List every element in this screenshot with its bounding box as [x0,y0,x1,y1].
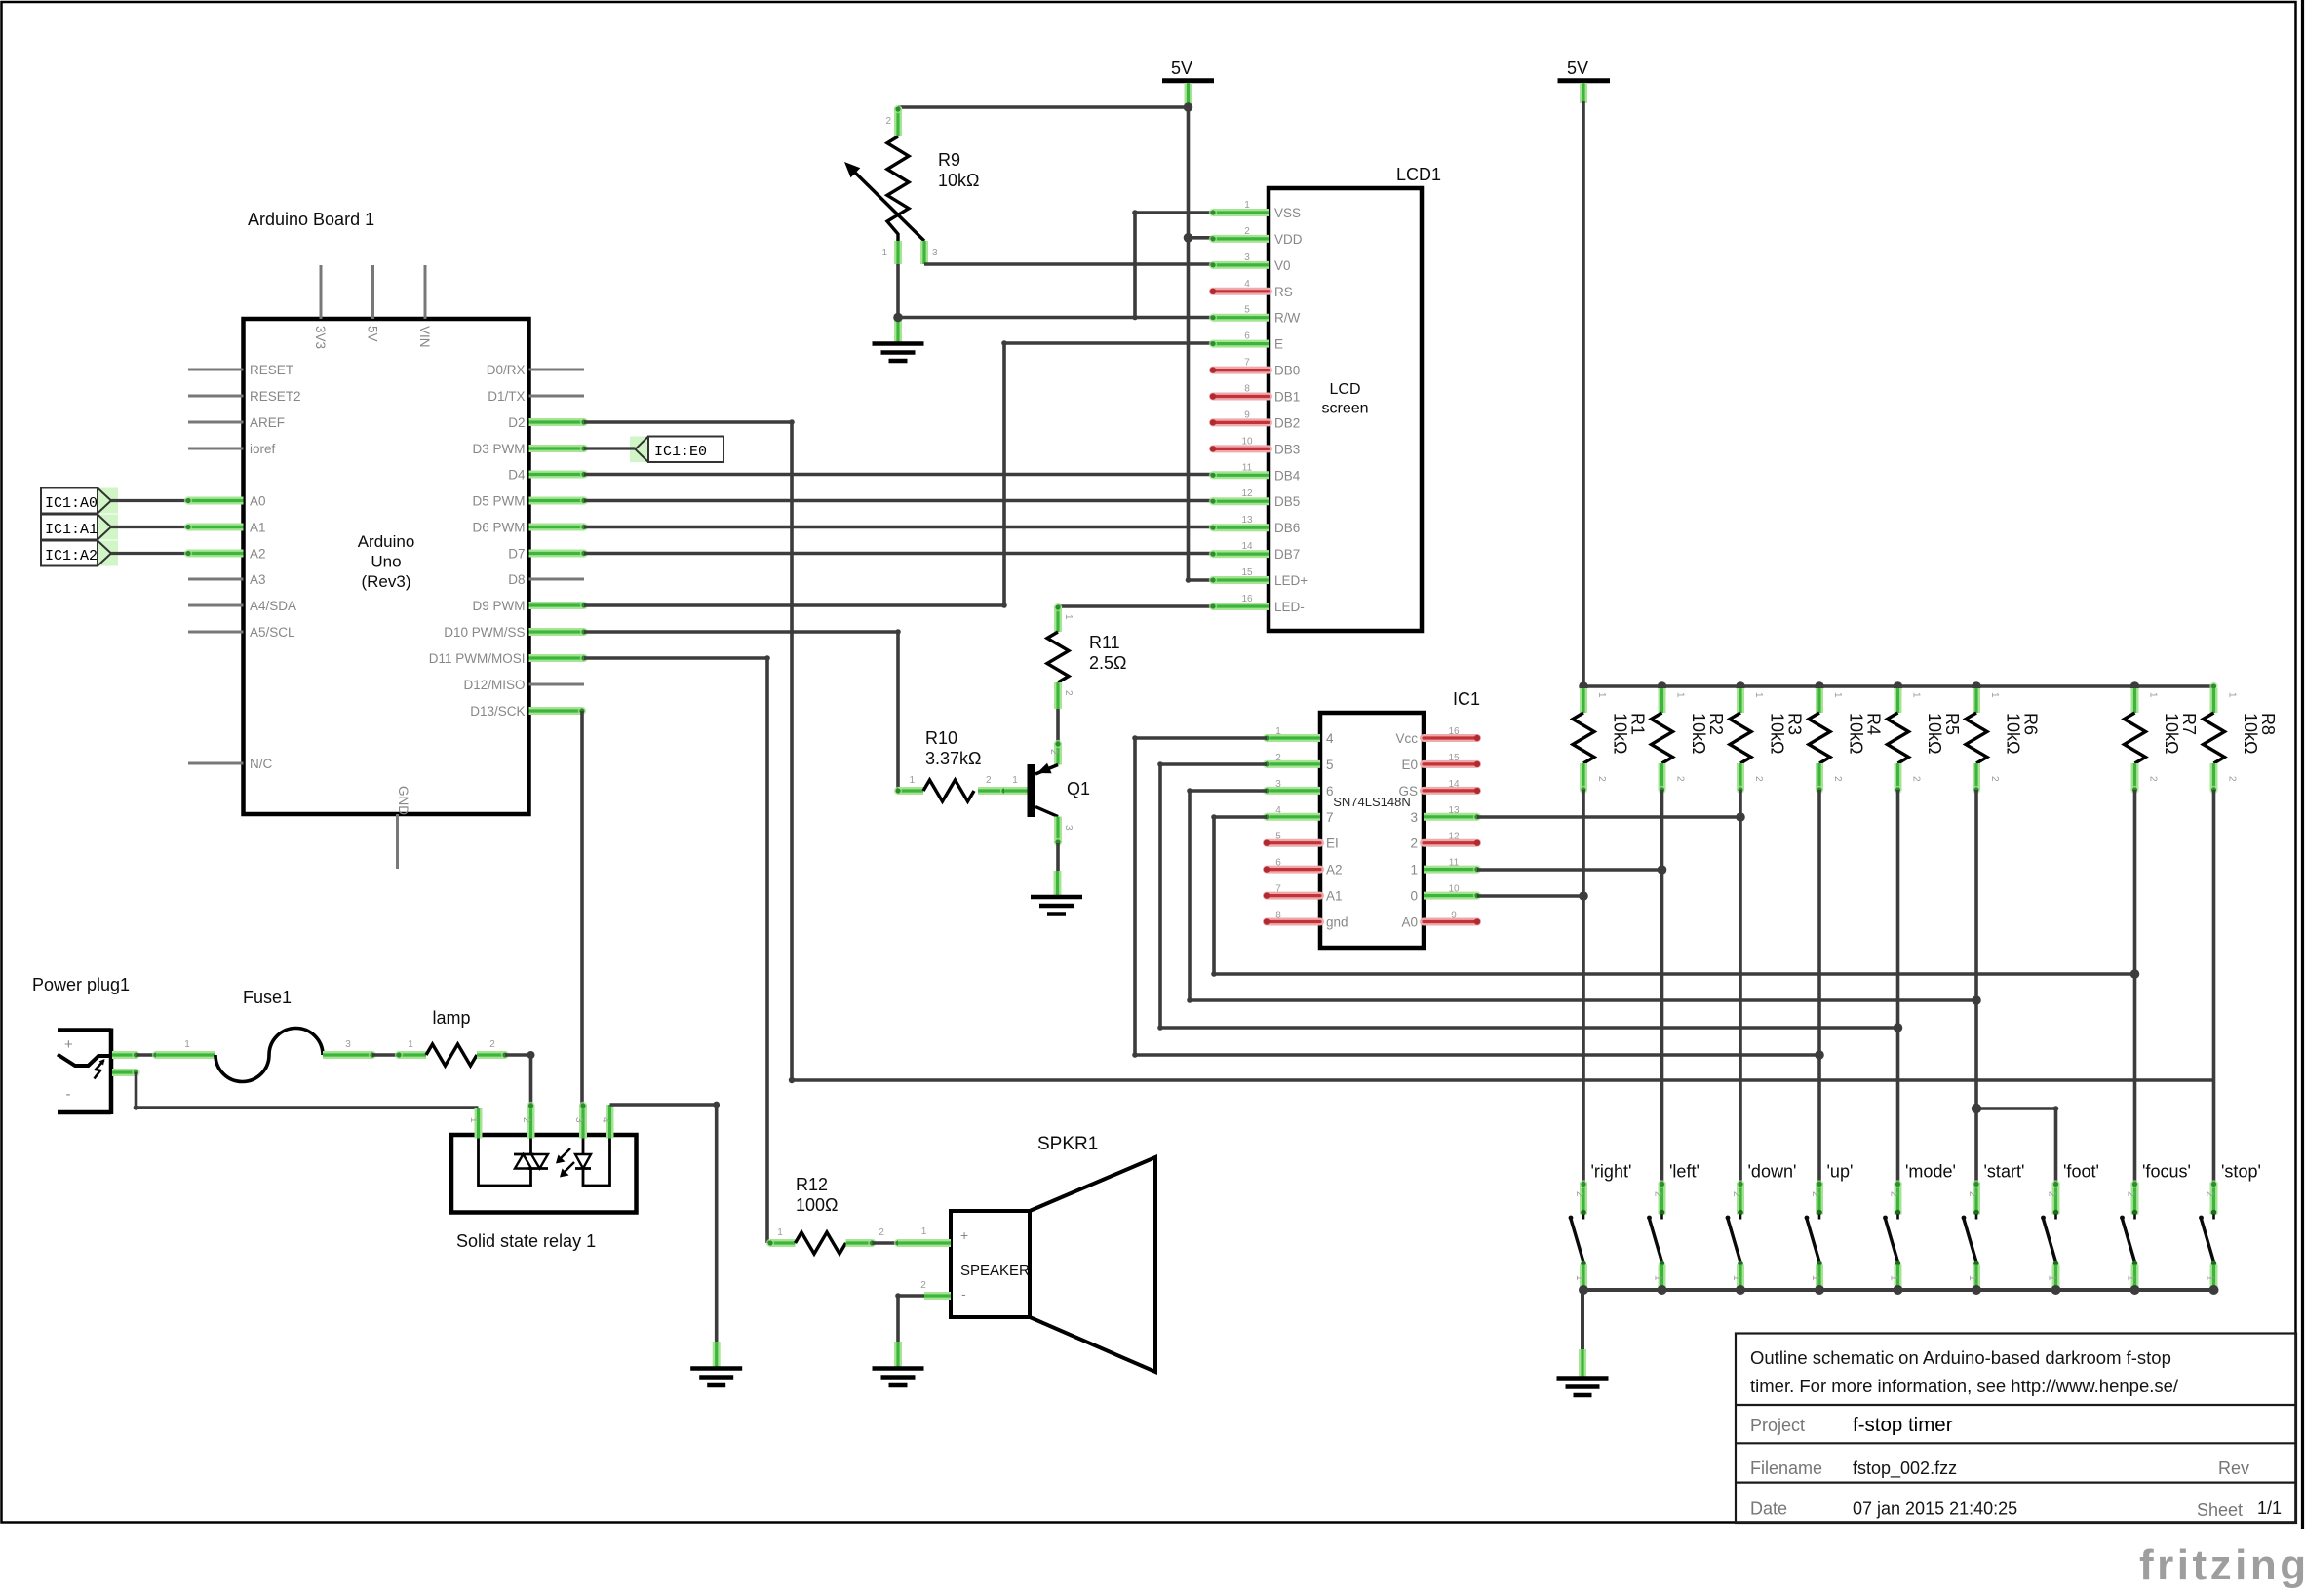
svg-text:IC1:A0: IC1:A0 [45,495,98,512]
svg-text:AREF: AREF [250,415,285,430]
svg-text:3: 3 [1275,779,1281,790]
svg-text:1: 1 [1911,692,1922,698]
svg-text:D1/TX: D1/TX [488,389,525,404]
svg-text:7: 7 [1275,884,1281,895]
LCD1 pin 4 RS [1210,279,1293,299]
IC1 pin 4 7 [1263,805,1334,825]
wire plug- to relay pin1 [134,1072,479,1110]
svg-text:14: 14 [1448,779,1460,790]
svg-text:f-stop timer: f-stop timer [1853,1414,1953,1436]
svg-text:LED+: LED+ [1274,573,1308,588]
wire IC1 pin2/input5 to 'mode' [1157,761,1902,1032]
svg-text:1: 1 [1653,1275,1663,1281]
relay pin 2 [521,1102,535,1139]
svg-text:1: 1 [1244,200,1250,211]
net flag IC1:A0 [41,488,118,514]
fritzing watermark [2139,1541,2305,1589]
svg-text:10kΩ: 10kΩ [1768,713,1787,754]
relay pin 3 [573,1102,587,1139]
LCD1 pin 5 R/W [1209,305,1301,326]
IC1 pin 13 3 [1410,805,1481,825]
IC1 pin 5 EI [1264,832,1339,851]
wire IC1 pin11/output1 to 'left' column [1477,865,1666,875]
svg-text:Arduino Board 1: Arduino Board 1 [248,210,374,229]
svg-text:+: + [64,1036,73,1053]
wire 'mode' column vertical [1896,790,1900,1183]
svg-text:R2: R2 [1706,713,1726,735]
svg-text:R6: R6 [2021,713,2041,735]
solid state relay outline [451,1135,637,1251]
wire R9 pin3 to LCD V0 [924,262,1213,266]
svg-text:5V: 5V [366,326,380,342]
svg-text:5V: 5V [1171,58,1192,78]
svg-text:'foot': 'foot' [2063,1162,2099,1182]
svg-text:D11 PWM/MOSI: D11 PWM/MOSI [429,651,526,666]
svg-text:1/1: 1/1 [2257,1499,2282,1518]
IC1 pin 10 0 [1410,884,1481,904]
potentiometer R9 [844,105,979,264]
svg-text:5V: 5V [1567,58,1588,78]
svg-text:6: 6 [1275,858,1281,869]
svg-text:LCD1: LCD1 [1396,165,1441,184]
svg-text:DB3: DB3 [1274,442,1300,456]
IC1 pin 11 1 [1410,858,1481,877]
svg-text:2: 2 [1731,1191,1741,1197]
svg-text:1: 1 [408,1039,413,1050]
relay internal LED [575,1139,610,1187]
svg-text:2: 2 [489,1039,495,1050]
fuse Fuse1 [156,988,376,1082]
svg-text:A4/SDA: A4/SDA [250,599,296,613]
resistor R2 10k [1652,681,1727,794]
switch 'foot' [2041,1162,2099,1291]
svg-text:DB7: DB7 [1274,547,1300,562]
ground below R9 [873,318,924,361]
svg-text:2: 2 [879,1227,884,1238]
LCD1 pin 6 E [1209,331,1283,352]
wire IC1 pin3/input6 to 'start' [1187,788,1981,1005]
ground below switches [1557,1349,1609,1395]
svg-text:Solid state relay 1: Solid state relay 1 [456,1231,596,1251]
wire 'up' column vertical [1817,790,1821,1183]
wire D4 to LCD DB4 [584,473,1213,477]
IC1 pin 12 2 [1410,832,1480,851]
svg-text:1: 1 [184,1039,190,1050]
Arduino pin D12/MISO [463,678,584,692]
svg-text:07 jan 2015 21:40:25: 07 jan 2015 21:40:25 [1853,1499,2017,1519]
svg-text:Q1: Q1 [1067,779,1090,798]
wire VDD to 5V rail [1184,233,1213,243]
svg-text:14: 14 [1241,541,1253,552]
svg-text:A0: A0 [1401,915,1418,930]
svg-text:3: 3 [932,248,938,258]
svg-text:1: 1 [2205,1275,2215,1281]
svg-text:6: 6 [1244,331,1250,342]
resistor R12 [766,1175,884,1254]
wire IC1:A2 flag to pin [111,549,192,557]
wire D3 to IC1:E0 flag [584,447,636,449]
wire R9 pin2 to 5V rail [898,105,1189,109]
svg-text:13: 13 [1241,515,1253,526]
svg-text:D5 PWM: D5 PWM [473,494,526,509]
svg-text:1: 1 [881,248,887,258]
svg-text:E0: E0 [1401,758,1418,772]
svg-text:2: 2 [885,116,891,127]
svg-text:VSS: VSS [1274,206,1301,220]
svg-text:2: 2 [986,775,992,786]
Arduino pin A3 [188,572,266,587]
svg-text:V0: V0 [1274,258,1291,273]
svg-text:1: 1 [468,1117,479,1123]
svg-text:Power plug1: Power plug1 [32,975,130,994]
IC1 pin 2 5 [1263,753,1334,772]
svg-text:R12: R12 [796,1175,828,1194]
svg-text:2: 2 [920,1280,926,1291]
wire IC1 pin13/output3 to 'down' column [1477,812,1745,822]
svg-text:16: 16 [1448,726,1460,737]
wire D9 to LCD E [584,340,1213,608]
svg-text:10kΩ: 10kΩ [1689,713,1708,754]
resistor R6 10k [1966,681,2041,794]
svg-text:R8: R8 [2258,713,2278,735]
svg-text:1: 1 [2227,692,2238,698]
svg-text:VDD: VDD [1274,232,1303,247]
Arduino pin N/C [188,757,273,771]
svg-text:12: 12 [1448,832,1460,842]
resistor R7 10k [2125,681,2200,794]
svg-text:fstop_002.fzz: fstop_002.fzz [1853,1459,1957,1479]
svg-text:E: E [1274,337,1283,352]
svg-text:2: 2 [1832,776,1843,782]
wire lamp to relay pin2 [505,1051,535,1105]
switch 'down' [1726,1162,1797,1291]
svg-text:2: 2 [1653,1191,1663,1197]
Arduino pin A0 [188,494,266,509]
svg-text:Arduino: Arduino [358,532,415,551]
LCD1 pin 1 VSS [1209,200,1301,220]
svg-text:IC1:E0: IC1:E0 [654,444,707,460]
svg-text:2: 2 [2047,1191,2057,1197]
svg-text:R/W: R/W [1274,311,1301,326]
svg-text:DB5: DB5 [1274,494,1300,509]
wire R9 pin1 to ground [896,264,900,318]
LCD1 label [1396,165,1441,184]
svg-text:R7: R7 [2179,713,2199,735]
IC1 pin 7 A1 [1264,884,1343,904]
IC1 pin 16 Vcc [1395,726,1480,746]
net flag IC1:A2 [41,541,118,566]
Arduino pin D3 PWM [473,442,589,456]
wire IC1:A0 flag to pin [111,496,192,504]
svg-text:3: 3 [573,1117,584,1123]
Arduino pin D2 [508,415,588,430]
svg-text:R10: R10 [925,728,957,748]
resistor R11 [1047,603,1126,709]
svg-text:2: 2 [1275,753,1281,763]
svg-text:R5: R5 [1942,713,1962,735]
svg-text:3V3: 3V3 [313,326,328,349]
svg-text:D12/MISO: D12/MISO [463,678,525,692]
wire bus to ground [1581,1290,1584,1351]
svg-text:5: 5 [1244,305,1250,316]
wire D10 to R10 [584,629,901,791]
svg-text:D2: D2 [508,415,525,430]
resistor R8 10k [2204,682,2279,794]
wire 'start' column vertical [1974,790,1978,1183]
switch 'left' [1647,1162,1699,1291]
Arduino pin A1 [188,521,266,535]
resistor R1 10k [1573,681,1648,794]
wire IC1:A1 flag to pin [111,523,192,530]
wire relay pin4 to ground [610,1102,721,1343]
svg-text:1: 1 [2148,692,2159,698]
svg-text:fritzing: fritzing [2139,1541,2305,1589]
svg-text:1: 1 [921,1226,927,1237]
svg-text:1: 1 [1753,692,1764,698]
svg-text:1: 1 [1675,692,1686,698]
svg-text:4: 4 [600,1117,610,1123]
Arduino pin D1/TX [488,389,584,404]
svg-text:2: 2 [1967,1191,1977,1197]
wire D6 to LCD DB6 [584,526,1213,529]
resistor R4 10k [1809,681,1884,794]
svg-text:10kΩ: 10kΩ [2004,713,2023,754]
svg-text:VIN: VIN [417,326,432,348]
5V supply symbol left [1162,58,1214,105]
wire IC1 pin4/input7 to 'focus' [1211,814,2139,979]
svg-text:D7: D7 [508,547,525,562]
resistor R3 10k [1730,681,1805,794]
Arduino top pin VIN [417,265,432,348]
svg-text:DB0: DB0 [1274,364,1300,378]
svg-text:D9 PWM: D9 PWM [473,599,526,613]
svg-text:IC1:A2: IC1:A2 [45,548,98,564]
wire 'right' column vertical [1582,790,1585,1183]
wire VSS to ground net [1132,210,1213,317]
svg-text:10kΩ: 10kΩ [2162,713,2181,754]
svg-text:'focus': 'focus' [2142,1162,2191,1182]
svg-text:A2: A2 [250,547,266,562]
LCD1 pin 11 DB4 [1209,462,1301,483]
svg-text:100Ω: 100Ω [796,1195,839,1215]
Arduino bottom pin GND [396,786,410,869]
svg-text:1: 1 [1832,692,1843,698]
svg-text:3: 3 [1410,810,1418,825]
wire D2 to 'stop' column [584,419,2214,1083]
svg-text:DB1: DB1 [1274,390,1300,405]
Arduino board label [248,210,374,229]
svg-text:5: 5 [1275,832,1281,842]
svg-text:IC1:A1: IC1:A1 [45,522,98,538]
Arduino pin D11 PWM/MOSI [429,651,588,666]
Arduino pin AREF [188,415,285,430]
svg-text:16: 16 [1241,594,1253,604]
wire plug+ to fuse [137,1051,161,1059]
svg-text:Vcc: Vcc [1395,731,1418,746]
ground below relay [690,1342,742,1385]
svg-text:screen: screen [1321,401,1368,417]
svg-text:2: 2 [2148,776,2159,782]
Arduino pin A2 [188,547,266,562]
svg-text:RS: RS [1274,285,1293,299]
IC1 pin 3 6 [1263,779,1334,798]
wire 5V left rail down to LED+ [1186,103,1213,583]
IC1 outline SN74LS148N [1320,713,1424,948]
svg-text:8: 8 [1275,911,1281,921]
Arduino pin D13/SCK [470,704,586,719]
svg-text:2: 2 [1063,690,1074,696]
title block description text [1750,1347,2179,1396]
IC1 part number text [1333,795,1411,809]
svg-text:'up': 'up' [1827,1162,1854,1182]
svg-text:Date: Date [1750,1499,1787,1519]
wire Q1 collector to ground [1056,843,1060,871]
svg-text:D13/SCK: D13/SCK [470,704,525,719]
svg-text:R4: R4 [1864,713,1884,735]
svg-text:2: 2 [1753,776,1764,782]
speaker SPKR1 [898,1134,1155,1372]
svg-text:D8: D8 [508,572,525,587]
svg-text:'left': 'left' [1669,1162,1699,1182]
svg-text:D3 PWM: D3 PWM [473,442,526,456]
svg-text:1: 1 [1810,1275,1820,1281]
switch 'mode' [1883,1162,1956,1291]
svg-text:'down': 'down' [1748,1162,1797,1182]
wire 5V bus across R1-R8 [1583,684,2214,688]
Arduino pin D7 [508,547,588,562]
relay pin 1 [468,1108,479,1139]
svg-text:10kΩ: 10kΩ [2241,713,2260,754]
svg-text:Sheet: Sheet [2197,1500,2243,1520]
LCD1 pin 13 DB6 [1209,515,1300,535]
LCD1 pin 7 DB0 [1210,358,1300,378]
relay pin 4 [600,1105,610,1139]
svg-text:2: 2 [1989,776,2000,782]
power plug Power plug1 [32,975,140,1114]
svg-text:LCD: LCD [1329,381,1360,398]
svg-text:2: 2 [521,1117,531,1123]
LCD1 pin 9 DB2 [1210,409,1300,430]
svg-text:8: 8 [1244,384,1250,395]
svg-text:2: 2 [2227,776,2238,782]
svg-text:15: 15 [1448,753,1460,763]
svg-text:11: 11 [1242,462,1253,473]
svg-text:3: 3 [345,1039,351,1050]
svg-text:13: 13 [1448,805,1460,816]
wire 'stop' column vertical [2212,790,2216,1183]
IC1 pin 6 A2 [1264,858,1343,877]
wire speaker- to ground [895,1293,924,1343]
svg-text:Outline schematic on Arduino-b: Outline schematic on Arduino-based darkr… [1750,1347,2171,1368]
svg-text:RESET: RESET [250,363,293,377]
LCD1 pin 10 DB3 [1210,436,1300,456]
svg-text:10kΩ: 10kΩ [938,171,979,190]
svg-text:lamp: lamp [433,1008,471,1028]
Arduino pin D8 [508,572,584,587]
net flag IC1:A1 [41,515,118,540]
svg-text:2: 2 [1911,776,1922,782]
Q1 base pin [1004,775,1028,791]
svg-text:Filename: Filename [1750,1459,1822,1478]
svg-text:R1: R1 [1628,713,1648,735]
relay opto light arrows [556,1148,574,1178]
svg-text:R11: R11 [1089,633,1120,652]
IC1 label [1453,689,1480,709]
svg-text:-: - [961,1286,966,1302]
svg-text:SPEAKER: SPEAKER [960,1263,1030,1279]
svg-text:R3: R3 [1785,713,1805,735]
svg-text:7: 7 [1326,810,1334,825]
wire R11 to Q1 emitter [1056,709,1060,743]
title block date row [1750,1499,2282,1520]
svg-text:1: 1 [1574,1275,1584,1281]
svg-text:1: 1 [1731,1275,1741,1281]
wire 'down' column vertical [1739,790,1742,1183]
svg-text:Project: Project [1750,1416,1805,1435]
svg-text:1: 1 [1889,1275,1899,1281]
switch 'stop' [2199,1162,2261,1291]
wire LED- to R11 [1058,604,1213,608]
svg-text:2: 2 [1048,749,1059,755]
svg-text:EI: EI [1326,837,1339,851]
LCD1 outline [1269,188,1422,631]
svg-text:gnd: gnd [1326,915,1348,930]
Arduino pin D10 PWM/SS [444,625,588,640]
svg-text:RESET2: RESET2 [250,389,301,404]
svg-text:3: 3 [1063,825,1074,831]
svg-text:11: 11 [1449,858,1460,869]
wire jog 'start' column to 'foot' switch [1972,1104,2059,1183]
Arduino top pin 5V [366,265,380,342]
wire R12 to speaker+ [873,1239,903,1247]
svg-text:10: 10 [1241,436,1253,447]
svg-text:Fuse1: Fuse1 [243,988,292,1007]
transistor Q1 [1028,740,1091,846]
svg-text:DB4: DB4 [1274,468,1301,483]
svg-text:4: 4 [1275,805,1281,816]
Arduino top pin 3V3 [313,265,328,349]
svg-text:12: 12 [1241,488,1253,499]
svg-text:'stop': 'stop' [2221,1162,2261,1182]
svg-text:1: 1 [2126,1275,2136,1281]
svg-text:+: + [960,1227,968,1243]
svg-text:4: 4 [1244,279,1250,290]
svg-text:A3: A3 [250,572,266,587]
svg-text:N/C: N/C [250,757,273,771]
Arduino pin A4/SDA [188,599,296,613]
Arduino pin D0/RX [487,363,584,377]
svg-text:'start': 'start' [1984,1162,2025,1182]
wire D13 to relay pin 3 [580,711,584,1105]
svg-text:1: 1 [909,775,915,786]
ground below speaker [873,1342,924,1385]
svg-text:D4: D4 [508,468,526,483]
svg-text:2: 2 [1574,1191,1584,1197]
svg-text:1: 1 [1989,692,2000,698]
IC1 pin 1 4 [1263,726,1334,746]
LCD1 pin 14 DB7 [1209,541,1300,562]
svg-text:A1: A1 [1326,889,1343,904]
svg-text:3.37kΩ: 3.37kΩ [925,749,982,768]
svg-text:2: 2 [2205,1191,2215,1197]
Arduino pin RESET2 [188,389,301,404]
svg-text:GS: GS [1398,784,1418,798]
svg-text:A2: A2 [1326,863,1343,877]
Arduino pin RESET [188,363,293,377]
wire fuse to lamp [372,1053,399,1057]
switch 'right' [1569,1162,1632,1291]
Arduino pin D9 PWM [473,599,589,613]
